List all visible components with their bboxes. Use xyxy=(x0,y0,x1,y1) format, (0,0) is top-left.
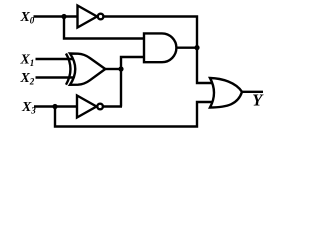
svg-text:2: 2 xyxy=(29,76,35,86)
svg-text:3: 3 xyxy=(30,105,36,115)
svg-text:0: 0 xyxy=(30,15,35,25)
svg-text:1: 1 xyxy=(30,58,35,68)
